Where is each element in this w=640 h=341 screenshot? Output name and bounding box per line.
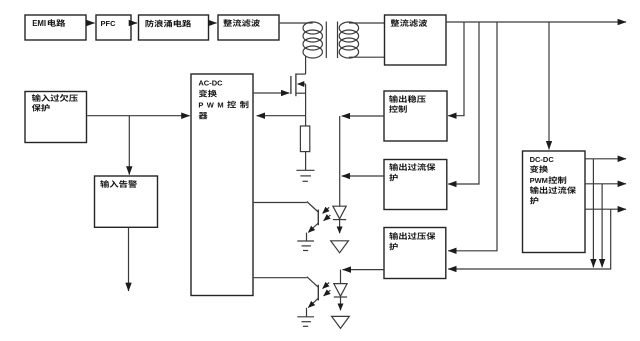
transformer T1 secondary winding (339, 22, 358, 34)
opto-isolator U2 LED (333, 206, 346, 219)
wire: DC-DC output 1 (586, 158, 626, 160)
wire: input alarm output down arrow (128, 228, 130, 291)
block: DC-DC converter PWM control (523, 151, 586, 253)
block: output voltage regulation control (384, 91, 447, 141)
block: output over-voltage protection (384, 228, 446, 279)
wire: resistor to ground (305, 152, 307, 170)
wire: OVP to AC-DC controller (87, 115, 189, 117)
wire: primary bottom to MOSFET drain (305, 57, 307, 75)
resistor R1 (current sense) (300, 126, 309, 152)
ground: opto 1 emitter (297, 240, 314, 242)
transistor Q1 (power MOSFET) (290, 76, 292, 94)
wire: secondary bottom to rectifier filter 2 (349, 56, 385, 58)
block: rectifier filter (secondary) (385, 15, 447, 65)
wire: opto feedback vertical (339, 116, 341, 207)
wire: tap to over-current protection (448, 22, 479, 184)
wire: feedback tap to regulation control (448, 22, 464, 116)
wire: over-current protection to opto bus (342, 175, 384, 177)
wire: output 3 return and bottom bus (448, 209, 611, 269)
block: AC-DC PWM controller (191, 74, 253, 296)
svg-text:EMI: EMI (32, 19, 46, 28)
wire: bottom bus left segment to opto 2 (343, 269, 384, 271)
wire: branch down to input alarm (128, 116, 130, 175)
wire: AC-DC controller to opto 2 collector (254, 277, 307, 279)
label: input over/under-voltage protection (32, 94, 41, 102)
block: input over/under-voltage protection (25, 92, 87, 143)
label: rectifier filter 2 (391, 19, 400, 26)
wire: AC-DC controller to opto 1 collector (254, 202, 307, 204)
opto-isolator U3 light arrows (323, 283, 330, 289)
label: input alarm (100, 180, 109, 188)
ground: opto 2 emitter (297, 316, 314, 318)
block: surge protection circuit (139, 15, 209, 40)
wire: MOSFET source down to resistor (305, 84, 307, 126)
wire: tap to DC-DC converter (548, 22, 550, 149)
svg-text:PWM: PWM (530, 176, 548, 185)
wire: drop to opto 2 LED (340, 270, 342, 284)
wire: surge to rectifier (209, 22, 216, 24)
wire: DC-DC output 3 (586, 208, 626, 210)
label: rectifier filter 1 (223, 19, 232, 26)
label: output over-voltage protection (389, 232, 398, 240)
wire: tap to over-voltage protection (448, 22, 497, 251)
transformer T1 primary winding (303, 22, 322, 34)
ground: primary side (296, 169, 314, 171)
svg-text:DC-DC: DC-DC (530, 155, 555, 164)
block: input alarm (95, 176, 158, 227)
label: surge protection (146, 20, 154, 28)
wire: DC-DC output 2 (586, 183, 626, 185)
wire: EMI to PFC (87, 22, 95, 24)
opto-isolator U3 phototransistor (307, 277, 318, 288)
block: output over-current protection (384, 160, 447, 210)
wire: output 2 return drop (601, 184, 603, 267)
block: PFC (96, 15, 131, 40)
block: EMI circuit (25, 15, 86, 40)
wire: PFC to surge (132, 22, 137, 24)
wire: AC-DC controller gate drive (254, 92, 290, 94)
block: rectifier filter (primary) (218, 15, 279, 40)
wire: output 1 return drop (592, 159, 594, 267)
wire: secondary top to rectifier filter 2 (349, 22, 385, 24)
label: output voltage regulation control (389, 95, 398, 103)
opto-isolator U3 LED (334, 284, 347, 297)
wire: regulation control to opto bus (342, 115, 384, 117)
wire: main output bus (447, 21, 626, 23)
opto-isolator U2 light arrows (323, 207, 330, 213)
svg-text:AC-DC: AC-DC (198, 79, 223, 88)
wire: rectifier to transformer primary (280, 22, 313, 24)
svg-text:P W M: P W M (198, 101, 223, 110)
opto-isolator U2 phototransistor (307, 202, 318, 213)
label: output over-current protection (389, 163, 398, 171)
terminal: opto 2 LED return (open arrow) (332, 316, 350, 328)
terminal: opto 1 LED return (open arrow) (331, 241, 349, 253)
svg-text:PFC: PFC (101, 19, 117, 28)
wire: current sense to AC-DC controller (257, 115, 305, 117)
transformer T1 core (325, 22, 327, 59)
